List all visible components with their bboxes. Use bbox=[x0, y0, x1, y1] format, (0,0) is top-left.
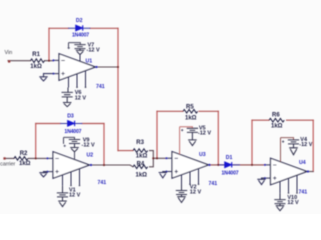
svg-text:1kΩ: 1kΩ bbox=[19, 161, 31, 167]
svg-text:R4: R4 bbox=[137, 161, 145, 167]
svg-text:R2: R2 bbox=[20, 151, 28, 157]
svg-text:U3: U3 bbox=[199, 152, 206, 158]
svg-text:1N4007: 1N4007 bbox=[64, 129, 81, 135]
svg-text:1N4007: 1N4007 bbox=[222, 170, 239, 176]
svg-text:U1: U1 bbox=[86, 58, 93, 64]
svg-text:12 V: 12 V bbox=[69, 193, 81, 199]
svg-text:1N4007: 1N4007 bbox=[72, 32, 89, 38]
svg-text:-12 V: -12 V bbox=[87, 47, 100, 53]
svg-text:1kΩ: 1kΩ bbox=[271, 123, 283, 129]
svg-text:R1: R1 bbox=[32, 52, 40, 58]
svg-text:U4: U4 bbox=[299, 160, 306, 166]
svg-text:741: 741 bbox=[96, 84, 105, 90]
svg-text:741: 741 bbox=[209, 181, 218, 187]
svg-text:D1: D1 bbox=[226, 155, 233, 161]
svg-text:1kΩ: 1kΩ bbox=[136, 173, 148, 179]
svg-text:R6: R6 bbox=[272, 112, 280, 118]
svg-text:carrier: carrier bbox=[0, 162, 15, 168]
svg-text:1kΩ: 1kΩ bbox=[30, 64, 42, 70]
svg-text:R5: R5 bbox=[186, 105, 194, 111]
svg-text:-12 V: -12 V bbox=[299, 142, 312, 148]
svg-text:-12 V: -12 V bbox=[82, 143, 95, 149]
svg-text:U2: U2 bbox=[87, 153, 94, 159]
svg-text:Vin: Vin bbox=[5, 50, 13, 56]
svg-text:D2: D2 bbox=[76, 18, 83, 24]
svg-text:12 V: 12 V bbox=[75, 95, 87, 101]
svg-text:741: 741 bbox=[299, 189, 308, 195]
svg-text:741: 741 bbox=[98, 180, 107, 186]
svg-text:12 V: 12 V bbox=[190, 190, 202, 196]
svg-text:12 V: 12 V bbox=[287, 200, 299, 206]
svg-text:1kΩ: 1kΩ bbox=[136, 154, 148, 160]
svg-text:R3: R3 bbox=[136, 140, 144, 146]
svg-text:-12 V: -12 V bbox=[198, 131, 211, 137]
svg-text:D3: D3 bbox=[67, 113, 74, 119]
svg-text:1kΩ: 1kΩ bbox=[185, 115, 197, 121]
